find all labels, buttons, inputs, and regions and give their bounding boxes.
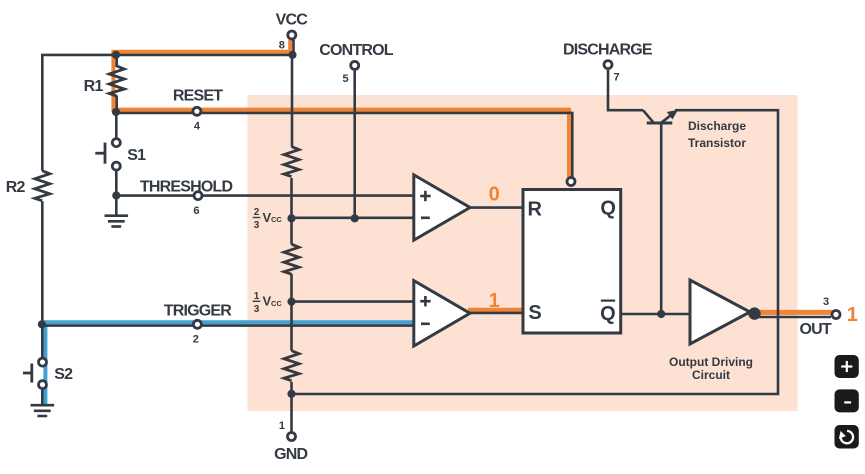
- svg-text:R: R: [527, 198, 542, 220]
- svg-text:VCC: VCC: [276, 12, 309, 29]
- svg-text:RESET: RESET: [173, 87, 223, 104]
- svg-text:0: 0: [489, 184, 500, 206]
- svg-text:R2: R2: [6, 179, 26, 196]
- svg-text:CC: CC: [271, 215, 282, 224]
- svg-text:OUT: OUT: [800, 321, 832, 338]
- svg-text:4: 4: [194, 120, 201, 132]
- svg-text:5: 5: [342, 73, 348, 85]
- svg-text:CC: CC: [271, 299, 282, 308]
- svg-text:GND: GND: [274, 446, 307, 463]
- svg-text:Discharge: Discharge: [688, 119, 746, 133]
- svg-text:6: 6: [193, 205, 199, 217]
- svg-text:1: 1: [847, 304, 858, 326]
- svg-text:3: 3: [254, 304, 260, 315]
- svg-text:2: 2: [254, 207, 260, 218]
- svg-text:3: 3: [823, 296, 829, 308]
- svg-text:1: 1: [254, 291, 260, 302]
- svg-text:S: S: [528, 302, 541, 324]
- svg-text:1: 1: [279, 420, 285, 432]
- svg-text:Q: Q: [600, 198, 616, 220]
- svg-text:1: 1: [489, 290, 500, 312]
- svg-text:Q: Q: [600, 303, 616, 325]
- svg-text:S1: S1: [127, 147, 146, 164]
- svg-text:R1: R1: [84, 78, 104, 95]
- svg-text:CONTROL: CONTROL: [319, 42, 394, 59]
- svg-text:TRIGGER: TRIGGER: [164, 303, 233, 320]
- svg-text:2: 2: [193, 333, 199, 345]
- svg-text:Circuit: Circuit: [692, 368, 730, 382]
- svg-text:3: 3: [254, 220, 260, 231]
- svg-text:7: 7: [613, 71, 619, 83]
- svg-text:THRESHOLD: THRESHOLD: [140, 179, 233, 196]
- svg-text:8: 8: [279, 40, 285, 52]
- svg-text:S2: S2: [54, 366, 73, 383]
- svg-text:DISCHARGE: DISCHARGE: [563, 41, 653, 58]
- svg-text:Transistor: Transistor: [688, 136, 746, 150]
- svg-text:Output Driving: Output Driving: [669, 355, 753, 369]
